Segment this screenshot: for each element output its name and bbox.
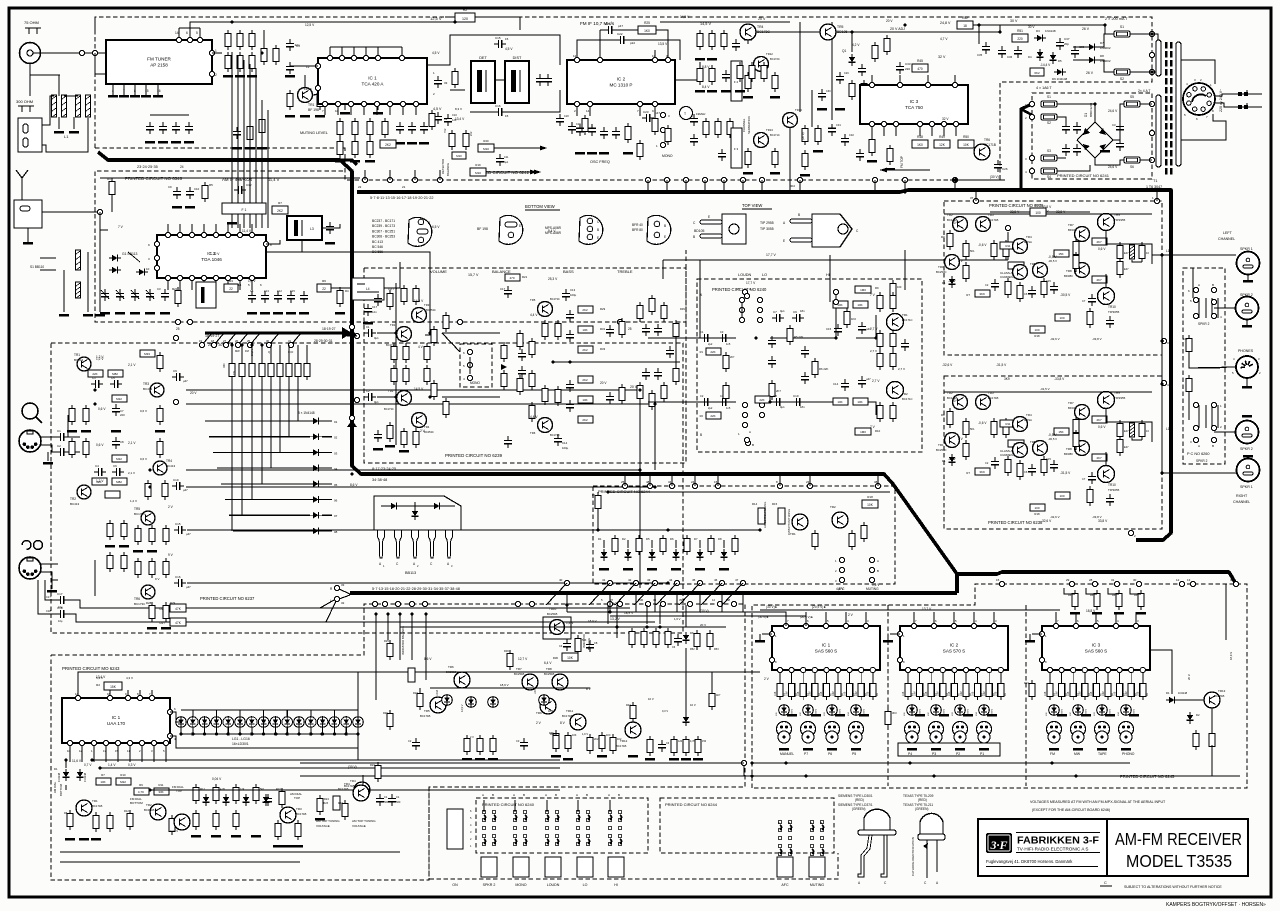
svg-text:470: 470 (509, 276, 514, 280)
capacitor C1 2u2 (700, 337, 704, 339)
resistor (870, 683, 876, 696)
wire (442, 396, 500, 398)
resistor (637, 385, 643, 398)
capacitor C17 1u5 (569, 330, 571, 334)
resistor (890, 405, 896, 418)
svg-text:10 V: 10 V (952, 221, 959, 225)
resistor M20 (431, 383, 437, 396)
pin (987, 667, 992, 672)
wire (212, 52, 222, 54)
svg-text:9,4 V: 9,4 V (548, 229, 556, 233)
wire led (263, 727, 265, 734)
resistor 70K (619, 321, 625, 334)
wire (799, 22, 801, 112)
wire (270, 345, 272, 360)
capacitor (289, 62, 291, 66)
wire (251, 345, 253, 360)
resistor (135, 528, 141, 541)
ground (835, 108, 845, 111)
svg-text:18,9 V: 18,9 V (624, 611, 634, 615)
svg-text:4K7: 4K7 (1096, 240, 1102, 244)
pin (897, 631, 902, 636)
voltage selector socket (1183, 83, 1215, 115)
svg-text:25: 25 (628, 327, 632, 331)
diode (431, 505, 443, 507)
svg-text:R4: R4 (345, 289, 349, 293)
svg-text:MPSA: MPSA (1024, 240, 1032, 244)
pin (715, 483, 720, 488)
transistor (570, 714, 586, 730)
switch wafers 6244 (778, 820, 782, 824)
wire (470, 111, 494, 113)
wire (1098, 34, 1114, 47)
IC1 top pins (329, 47, 331, 58)
svg-text:TR5: TR5 (837, 25, 844, 29)
pin (149, 695, 154, 700)
pin (1193, 402, 1198, 407)
coil L1b (61, 95, 66, 117)
svg-text:C1: C1 (366, 325, 370, 329)
resistor (1005, 459, 1011, 472)
ground (1136, 612, 1146, 615)
resistor 4K7 (861, 83, 867, 96)
svg-text:KAMPERS BOGTRYK/OFFSET · HORSE: KAMPERS BOGTRYK/OFFSET · HORSEN» (1166, 902, 1266, 908)
pin (1029, 155, 1034, 160)
svg-text:20 V: 20 V (886, 19, 893, 23)
pin (1149, 157, 1154, 162)
pin (839, 567, 844, 572)
svg-text:12n: 12n (372, 310, 377, 314)
fuse (1041, 114, 1057, 120)
bus corner (340, 160, 357, 165)
svg-text:R2: R2 (700, 414, 704, 418)
LED LG4 (211, 717, 222, 728)
wire (1188, 395, 1190, 420)
ground (172, 206, 182, 209)
svg-text:BC173C: BC173C (134, 602, 146, 606)
svg-text:(30 V): (30 V) (348, 765, 357, 769)
pin (742, 422, 747, 427)
pin (929, 121, 934, 126)
resistor (890, 333, 896, 346)
resistor bank 2 4K7 (239, 363, 245, 376)
LED (442, 695, 453, 706)
svg-text:1K5: 1K5 (1090, 691, 1093, 696)
svg-text:LD30/1: LD30/1 (816, 708, 818, 716)
wire (65, 760, 67, 768)
pin (953, 121, 958, 126)
svg-text:100µ: 100µ (562, 446, 569, 450)
wire (1192, 268, 1194, 298)
wire (306, 345, 308, 360)
IC3 bottom pins (871, 124, 873, 136)
svg-text:TR13: TR13 (766, 128, 773, 132)
svg-text:1M0: 1M0 (860, 288, 866, 292)
pin (1133, 623, 1138, 628)
19MHz test point (680, 107, 693, 120)
ground (907, 748, 917, 751)
wire to spkr (1142, 422, 1152, 442)
LED (1073, 705, 1084, 716)
R9 M22 (112, 395, 127, 402)
section divider dashed right (1025, 605, 1027, 786)
svg-text:µ47: µ47 (186, 532, 191, 536)
capacitor (566, 639, 568, 643)
pin (1149, 101, 1154, 106)
ground (299, 312, 309, 315)
ground (955, 748, 965, 751)
pin (1092, 581, 1097, 586)
transistor (150, 383, 164, 397)
capacitor (189, 187, 191, 191)
resistor (69, 408, 75, 421)
capacitor C3 (377, 294, 379, 298)
svg-text:2µ2: 2µ2 (708, 406, 713, 410)
svg-text:28·29·30·31: 28·29·30·31 (314, 339, 333, 343)
printed circuit no 6244 lower outline (660, 798, 834, 853)
ground (385, 445, 395, 448)
svg-text:25: 25 (247, 339, 251, 343)
F2 filter box (731, 61, 742, 101)
wire to loudn (700, 260, 736, 338)
wire (1073, 46, 1086, 48)
svg-text:0,04 V: 0,04 V (212, 777, 222, 781)
ground (770, 172, 780, 175)
IC3 SAS560S (1042, 626, 1150, 670)
LED LG7 (247, 717, 258, 728)
svg-text:-33,8 V: -33,8 V (1054, 377, 1065, 381)
LED LG15 (341, 717, 352, 728)
resistor (1186, 378, 1192, 391)
svg-text:1K5: 1K5 (1044, 691, 1047, 696)
svg-text:10K: 10K (567, 656, 574, 660)
ground (915, 714, 925, 717)
resistor R23 M23 (529, 341, 535, 354)
svg-text:33K: 33K (158, 790, 163, 794)
transistor (1075, 441, 1090, 456)
svg-text:C6: C6 (1024, 470, 1028, 474)
pin (872, 177, 877, 182)
svg-text:12,9 V: 12,9 V (460, 704, 464, 712)
wire (1178, 699, 1204, 701)
resistor (721, 33, 727, 46)
switch wafer row (1047, 722, 1062, 737)
wire ic2 right (675, 62, 700, 80)
svg-text:BC413: BC413 (74, 358, 84, 362)
resistor R32 10K (661, 385, 667, 398)
svg-text:8,6 V: 8,6 V (350, 483, 358, 487)
pin (225, 275, 230, 280)
ground (133, 550, 143, 553)
ground (65, 838, 75, 841)
wire am-fm link (243, 60, 245, 228)
svg-text:8,8 V: 8,8 V (702, 65, 710, 69)
svg-text:TR5: TR5 (1030, 262, 1036, 266)
pin (893, 121, 898, 126)
svg-text:IC 3: IC 3 (910, 99, 919, 104)
ground (1243, 455, 1253, 458)
ground (245, 147, 255, 150)
LED LG6 (235, 717, 246, 728)
svg-text:18: 18 (963, 24, 967, 28)
pin (739, 297, 744, 302)
wire (1214, 431, 1236, 433)
svg-text:C2: C2 (57, 444, 61, 448)
svg-text:AM BOTTOM TUNING: AM BOTTOM TUNING (763, 502, 767, 528)
pin (437, 177, 442, 182)
pin (869, 121, 874, 126)
resistor (249, 33, 255, 46)
ground (293, 845, 303, 848)
svg-text:02: 02 (334, 436, 338, 440)
capacitor (1053, 282, 1055, 286)
capacitor (423, 122, 425, 126)
junction (394, 331, 397, 334)
transistor (430, 697, 446, 713)
LED LG9 (270, 717, 281, 728)
pin (163, 740, 168, 745)
svg-text:10M: 10M (937, 691, 940, 696)
pin (1071, 667, 1076, 672)
ground (273, 845, 283, 848)
transistor (150, 804, 166, 820)
ground (335, 312, 345, 315)
svg-text:BC171B: BC171B (420, 714, 431, 718)
wire led (310, 727, 312, 734)
resistor (367, 141, 373, 154)
resistor (858, 683, 864, 696)
wire (94, 17, 96, 30)
svg-text:R14: R14 (752, 502, 758, 506)
svg-text:S3: S3 (1047, 149, 1051, 153)
svg-text:LOUDN: LOUDN (547, 883, 560, 887)
svg-text:TR11: TR11 (566, 709, 573, 713)
resistor (387, 713, 393, 726)
svg-text:33: 33 (351, 401, 355, 405)
junction (606, 490, 609, 493)
svg-text:BC253C: BC253C (426, 308, 436, 312)
svg-text:A: A (778, 821, 780, 825)
ground (803, 748, 813, 751)
resistor R12 2K2 (380, 140, 396, 148)
wire fan tap (269, 333, 279, 345)
resistor 1K5 (652, 118, 658, 131)
svg-text:14: 14 (75, 692, 79, 696)
pin (197, 37, 202, 42)
svg-text:47: 47 (735, 578, 739, 582)
wire pin stub (799, 180, 801, 190)
capacitor (399, 122, 401, 126)
pin (375, 55, 380, 60)
diode (1039, 49, 1041, 61)
svg-text:30 V: 30 V (1010, 19, 1018, 23)
svg-text:A: A (877, 559, 879, 563)
wire (999, 25, 1001, 32)
svg-text:4,5 V: 4,5 V (432, 51, 440, 55)
ground (1081, 714, 1091, 717)
svg-text:4K7: 4K7 (1096, 418, 1102, 422)
pin (237, 275, 242, 280)
ground (645, 758, 655, 761)
svg-text:BC413: BC413 (166, 464, 176, 468)
wire am-fm link (255, 68, 257, 228)
wire pin stub (723, 180, 725, 190)
wire (312, 93, 335, 95)
pin (1129, 667, 1134, 672)
resistor (647, 739, 653, 752)
capacitor C2 2u2 (700, 401, 704, 403)
coil (1129, 423, 1134, 437)
resistor (157, 441, 163, 454)
pin (409, 601, 414, 606)
wire (1108, 588, 1119, 594)
svg-text:24,8 V: 24,8 V (940, 21, 951, 25)
ground (247, 312, 257, 315)
ground (247, 75, 257, 78)
svg-text:100: 100 (1035, 211, 1041, 215)
svg-text:100µ: 100µ (570, 293, 577, 297)
svg-text:C7: C7 (1082, 477, 1086, 481)
svg-text:-31,5 V: -31,5 V (1060, 471, 1071, 475)
svg-text:11: 11 (127, 749, 130, 753)
svg-text:33,8 V: 33,8 V (1098, 519, 1108, 523)
svg-text:R38: R38 (550, 733, 555, 736)
ground (373, 448, 383, 451)
svg-text:BC308 - BC253: BC308 - BC253 (372, 235, 395, 239)
svg-text:22: 22 (322, 287, 326, 291)
wire fan tap (226, 333, 236, 345)
wire (1057, 157, 1066, 159)
ground (399, 450, 409, 453)
transistor (77, 485, 91, 499)
resistor (732, 538, 738, 551)
junction (1150, 70, 1153, 73)
wire bus tap (624, 474, 626, 486)
pin (769, 631, 774, 636)
pin (327, 55, 332, 60)
svg-text:1N4148: 1N4148 (57, 772, 61, 782)
svg-text:RIGHT: RIGHT (1236, 494, 1248, 498)
svg-text:4,4 V: 4,4 V (530, 313, 538, 317)
diode (245, 794, 247, 806)
capacitor C5 (110, 383, 114, 385)
wire led (357, 727, 359, 734)
pin (412, 177, 417, 182)
svg-text:VOLTAGE: VOLTAGE (316, 824, 330, 828)
svg-text:C1: C1 (384, 795, 388, 799)
wire (590, 671, 760, 673)
pin (263, 241, 268, 246)
resistor (163, 528, 169, 541)
wire (567, 612, 786, 626)
svg-text:560: 560 (396, 800, 401, 804)
wire led (298, 727, 300, 734)
ground (350, 160, 360, 163)
svg-text:34: 34 (668, 480, 672, 484)
svg-text:10K: 10K (857, 303, 862, 307)
pin (757, 317, 762, 322)
svg-text:R2: R2 (96, 683, 100, 687)
ground (647, 568, 657, 571)
svg-text:2,1 V: 2,1 V (128, 471, 135, 475)
capacitor (1109, 494, 1111, 498)
pin (79, 740, 84, 745)
pin (201, 275, 206, 280)
svg-text:BC237 - BC171: BC237 - BC171 (372, 219, 395, 223)
resistor (872, 45, 878, 58)
resistor (107, 523, 113, 536)
pin (1193, 297, 1198, 302)
svg-text:ON: ON (452, 883, 458, 887)
svg-text:P6: P6 (828, 752, 832, 756)
svg-text:C16: C16 (175, 575, 181, 579)
svg-text:4,7K: 4,7K (138, 790, 144, 794)
svg-text:A: A (749, 287, 751, 291)
svg-text:TOP VIEW: TOP VIEW (742, 203, 762, 208)
ground (153, 95, 163, 98)
svg-text:1,6 V: 1,6 V (674, 617, 681, 621)
junction (653, 402, 656, 405)
wire bank drop (297, 380, 299, 421)
ground (599, 152, 609, 155)
junction (345, 732, 348, 735)
IC1 TQA1046 (157, 235, 266, 278)
svg-text:C36: C36 (1007, 55, 1013, 59)
pin (1149, 69, 1154, 74)
wire drop 36 (646, 605, 648, 624)
IC1 bottom pins (324, 104, 326, 115)
svg-text:TR9: TR9 (536, 711, 542, 715)
svg-text:TR4: TR4 (757, 25, 764, 29)
svg-text:10K: 10K (100, 780, 105, 784)
pin (742, 402, 747, 407)
LED (931, 705, 942, 716)
svg-text:BC171B: BC171B (988, 396, 999, 400)
wire to rail (190, 22, 222, 28)
svg-text:(30 V)►: (30 V)► (766, 605, 778, 609)
svg-text:BFR 40: BFR 40 (632, 223, 643, 227)
wire 13.2V (186, 607, 630, 609)
svg-text:R28: R28 (146, 601, 152, 605)
R20 M10 (478, 144, 494, 152)
svg-text:-33,8 V: -33,8 V (1092, 337, 1102, 341)
wire (829, 255, 831, 302)
wire fan tap (250, 333, 260, 345)
BD105 package drawing (722, 214, 746, 244)
ground (695, 568, 705, 571)
resistor (890, 353, 896, 366)
svg-text:TR2: TR2 (902, 392, 908, 396)
resistor (1082, 683, 1088, 696)
svg-text:M10: M10 (456, 154, 462, 158)
wire (789, 128, 791, 190)
svg-text:2,7 V: 2,7 V (872, 379, 880, 383)
pin (189, 275, 194, 280)
svg-text:-30,5 V: -30,5 V (1060, 293, 1071, 297)
resistor (649, 393, 655, 406)
junction (666, 528, 669, 531)
capacitor (994, 279, 996, 283)
ground (185, 206, 195, 209)
svg-text:C35: C35 (977, 53, 983, 57)
svg-text:10K: 10K (582, 398, 587, 402)
wire (1211, 745, 1213, 776)
wire diode row 4 (217, 467, 310, 469)
svg-text:4K7: 4K7 (1096, 278, 1102, 282)
capacitor C16b (645, 368, 647, 372)
svg-text:P5: P5 (852, 752, 856, 756)
pin (249, 232, 254, 237)
